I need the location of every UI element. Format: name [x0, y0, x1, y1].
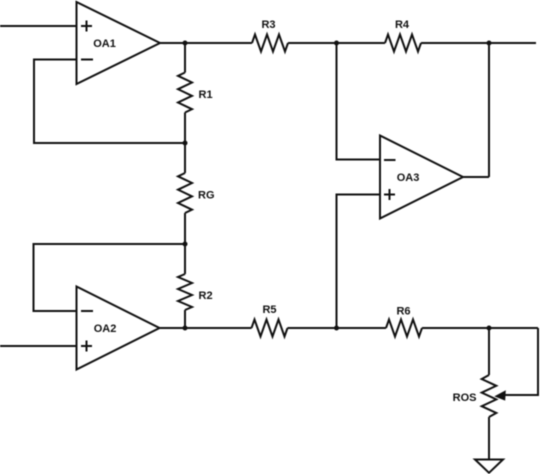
node junction (185,244) [183, 242, 188, 247]
svg-text:R5: R5 [262, 304, 276, 316]
resistor R5 [252, 320, 288, 337]
wire R1 to node (185,143) [184, 113, 186, 144]
wire node (185,143) down to RG [184, 143, 186, 173]
wire R2 to node (185,328) [184, 310, 186, 328]
resistor RG [178, 173, 192, 213]
svg-text:R3: R3 [261, 19, 275, 31]
wire node (185,43) down to R1 [184, 43, 186, 73]
resistor R2 [178, 274, 192, 310]
op-amp OA1 [77, 2, 161, 84]
wire node (185,244) down to R2 [184, 244, 186, 274]
wire OA1 output to R3 [160, 42, 252, 44]
wire OA3 output [463, 176, 489, 178]
wire ROS wiper loop from node (489,328) [505, 328, 539, 395]
svg-text:OA2: OA2 [94, 323, 117, 335]
node junction (336.5,328) [334, 326, 339, 331]
wire OA3 output feedback up to node (489,43) [488, 43, 490, 177]
op-amp OA3 [380, 136, 463, 219]
node junction (489,43) [487, 41, 492, 46]
svg-text:R6: R6 [396, 305, 410, 317]
wire RG to node (185,244) [184, 213, 186, 244]
wire R3 to node (336.5,43) [288, 42, 385, 44]
wire node (336.5,43) to OA3 inverting input [337, 43, 381, 160]
resistor R1 [178, 73, 192, 113]
op-amp OA2 [77, 287, 160, 370]
wire OA2 inverting feedback to node (185,244) [34, 244, 186, 311]
wire OA2 output to R5 [160, 327, 252, 329]
resistor R3 [252, 35, 288, 52]
ground [475, 460, 503, 473]
wire OA1 feedback to node at (185,143) [34, 60, 185, 144]
wire ROS bottom to ground [488, 417, 490, 460]
svg-text:R4: R4 [395, 19, 410, 31]
svg-text:ROS: ROS [453, 392, 477, 404]
node junction OA1 output (185,43) [183, 41, 188, 46]
wire node (336.5,328) to OA3 non-inverting input [337, 195, 381, 329]
wire R5 to node (336.5,328) [288, 327, 387, 329]
svg-text:R2: R2 [199, 290, 213, 302]
node junction (489,328) [487, 326, 492, 331]
svg-text:OA1: OA1 [93, 38, 116, 50]
node junction (185,143) [183, 141, 188, 146]
potentiometer ROS resistor body [482, 375, 497, 417]
wire R4 to output terminal [421, 42, 536, 44]
svg-text:OA3: OA3 [397, 172, 420, 184]
svg-text:R1: R1 [199, 89, 213, 101]
wire OA1 non-inverting input [0, 25, 77, 27]
resistor R4 [385, 35, 421, 52]
node junction OA2 output (185,328) [183, 326, 188, 331]
resistor R6 [386, 320, 422, 337]
svg-text:RG: RG [198, 189, 215, 201]
node junction (336.5,43) [334, 41, 339, 46]
wire OA2 non-inverting input [0, 345, 77, 347]
wire R6 to node (489,328) [422, 327, 538, 329]
wire node (489,328) down to ROS [488, 328, 490, 375]
ROS wiper arrowhead [494, 390, 506, 400]
